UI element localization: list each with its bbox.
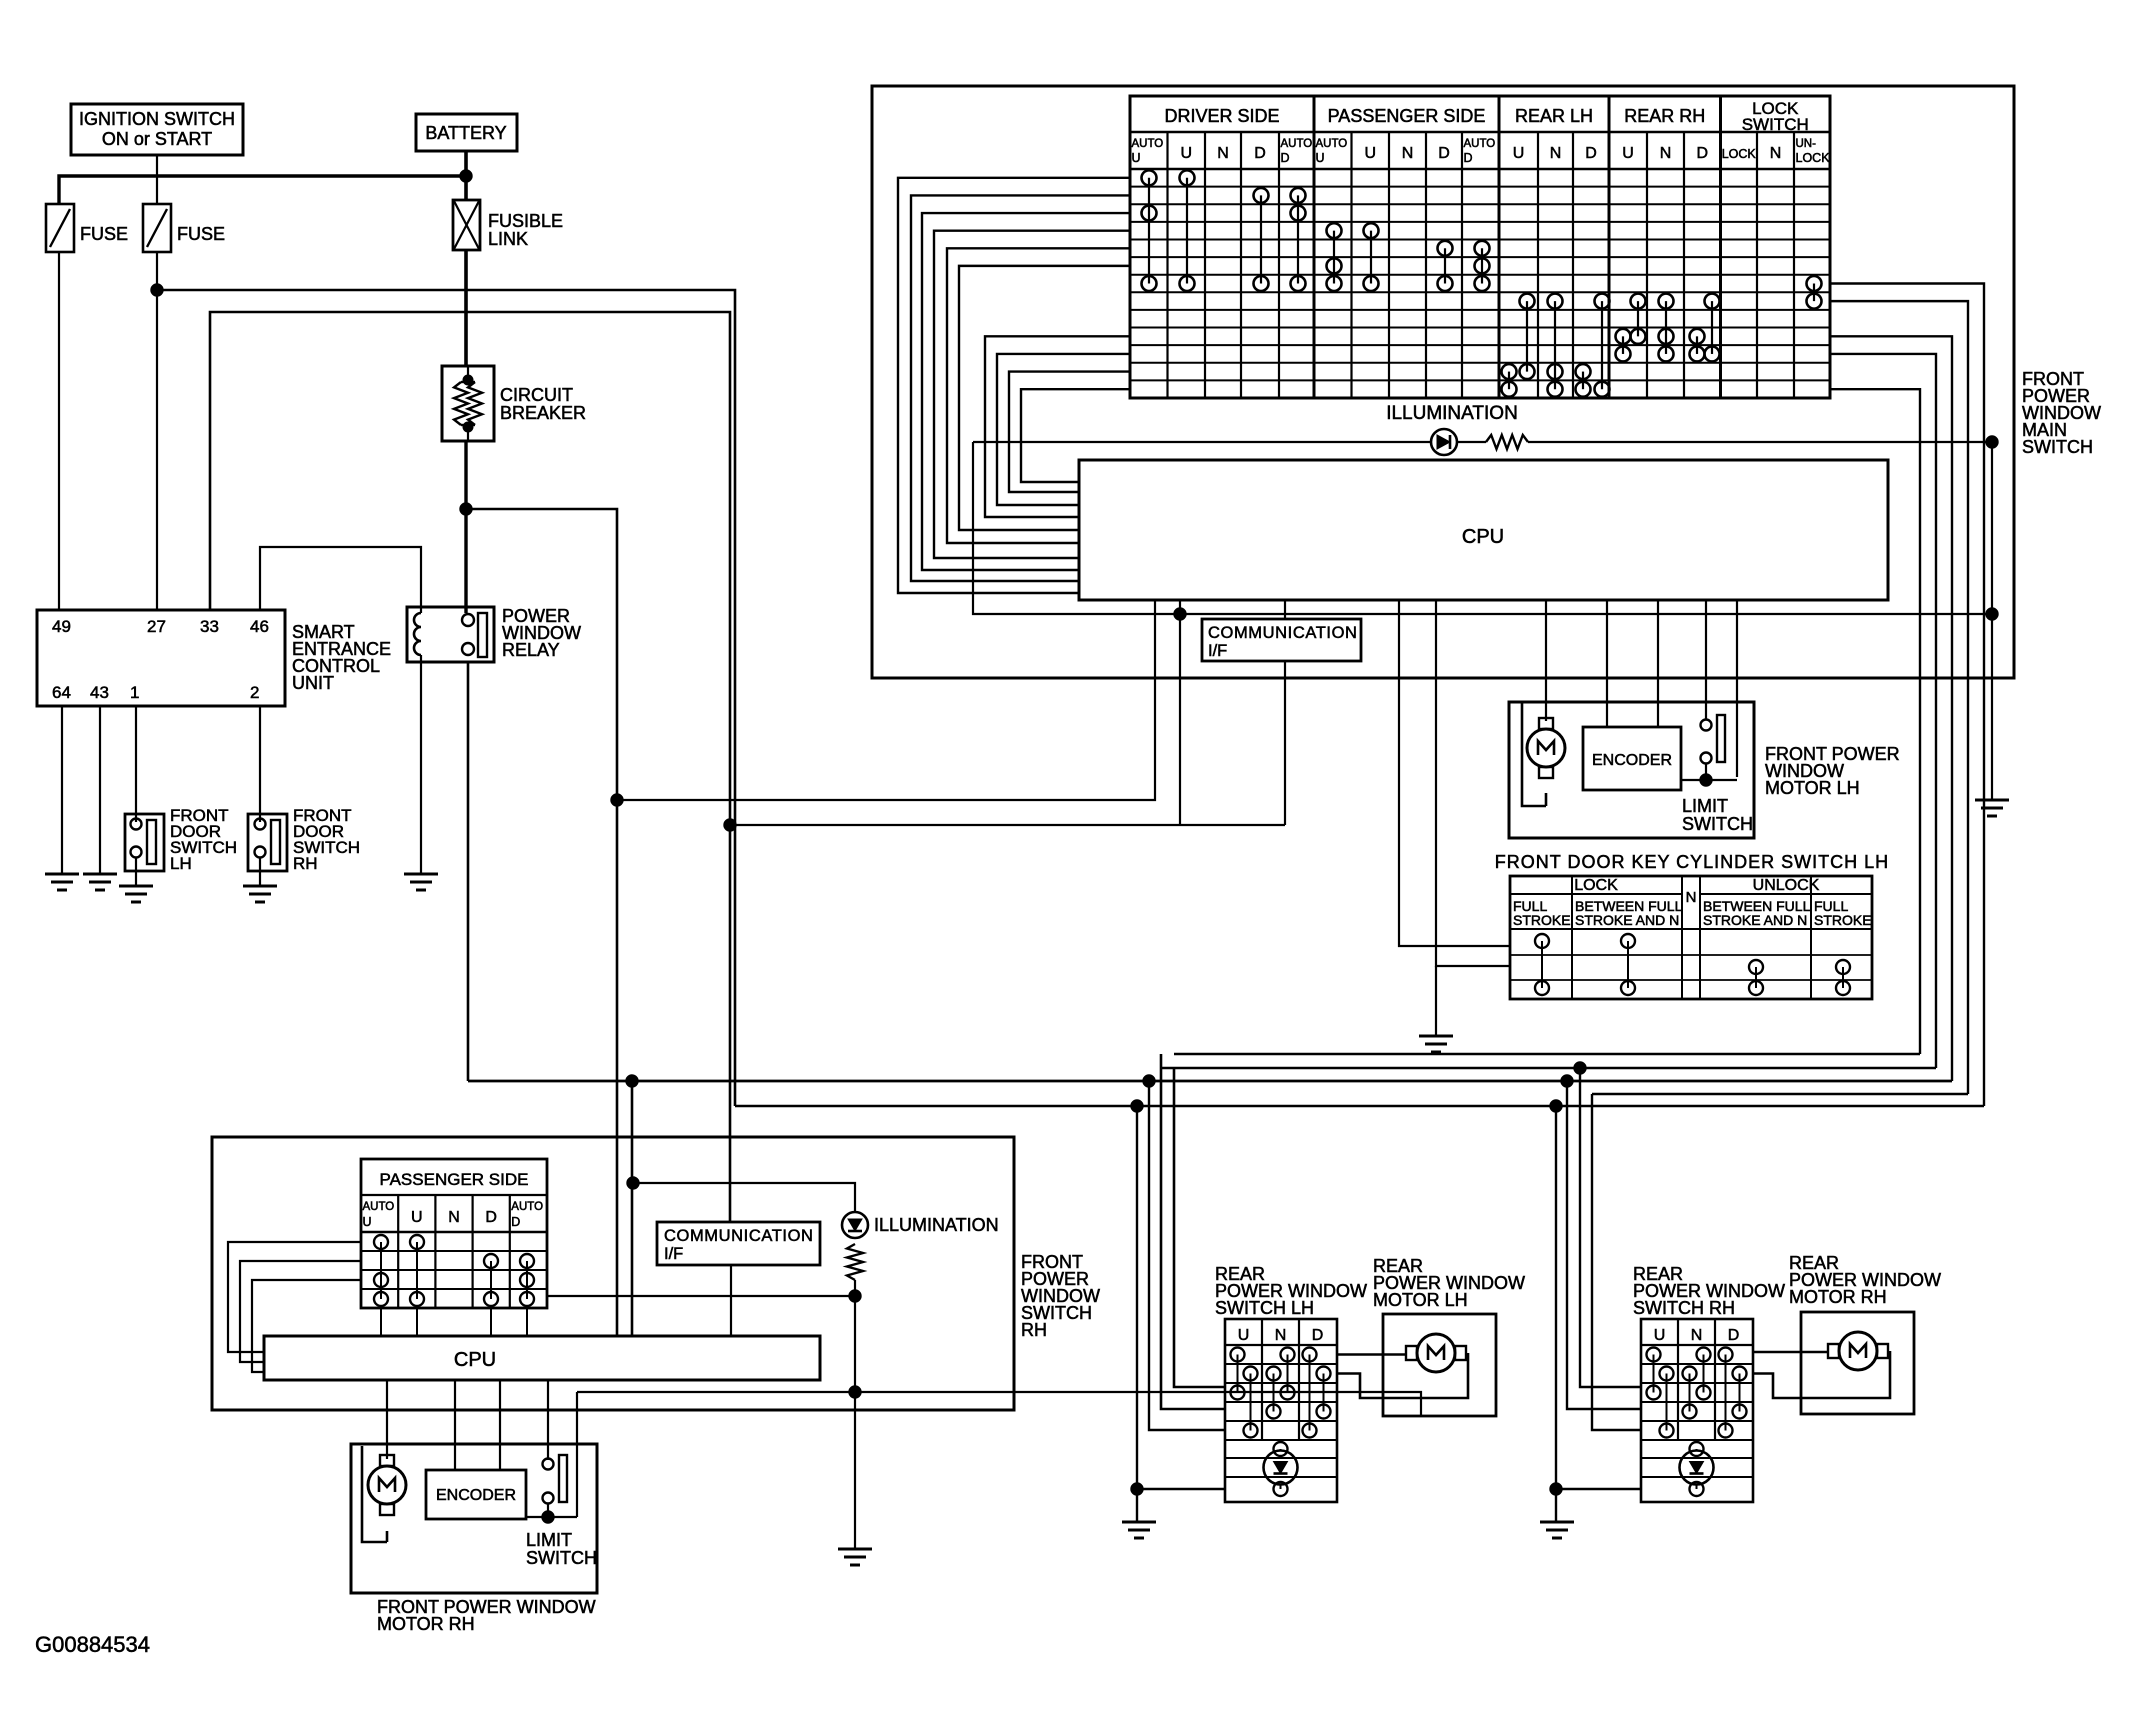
wire illumination feed	[973, 441, 1431, 443]
node CPU pin illumination	[1174, 608, 1186, 620]
node rear LH ground junction	[1131, 1483, 1143, 1495]
node battery feed junction	[460, 170, 472, 182]
wire cpu RH to limit switch	[547, 1380, 549, 1460]
front door switch LH	[125, 814, 164, 871]
node illumination RH to table	[849, 1290, 861, 1302]
svg-text:PASSENGER SIDE: PASSENGER SIDE	[380, 1170, 529, 1189]
illumination LED RH	[842, 1212, 868, 1238]
node B5 rear LH ground feed	[1131, 1100, 1143, 1112]
wire B3 to rear switch RH row2	[1567, 1081, 1641, 1409]
ground rear switch LH	[1122, 1521, 1156, 1524]
svg-text:RH: RH	[293, 854, 318, 873]
ground door switch RH	[243, 885, 277, 888]
main switch contact circles lock switch	[1813, 284, 1815, 302]
svg-text:N: N	[1217, 145, 1229, 162]
wire chain1 breaker branch to RH switch CPU	[466, 509, 617, 1336]
main switch contact circles driver side	[1148, 178, 1150, 284]
rear motor LH	[1417, 1334, 1455, 1372]
svg-text:N: N	[1686, 889, 1697, 906]
svg-text:D: D	[1312, 1327, 1324, 1344]
svg-text:REAR RH: REAR RH	[1624, 106, 1705, 126]
wire cpu to key cylinder row2	[1436, 600, 1510, 966]
wire ignition switch to fuse 2	[156, 155, 158, 204]
svg-text:PASSENGER SIDE: PASSENGER SIDE	[1328, 106, 1486, 126]
main switch left entry wires	[898, 178, 1130, 593]
smart entrance control unit box	[37, 610, 285, 706]
wire cpu to limit switch LH	[1705, 600, 1707, 719]
svg-text:2: 2	[250, 683, 259, 702]
svg-text:U: U	[411, 1209, 423, 1226]
svg-text:N: N	[1275, 1327, 1287, 1344]
svg-text:AUTO: AUTO	[1464, 138, 1496, 150]
front power window motor LH box	[1509, 702, 1754, 838]
bus B3 relay power	[468, 1080, 1952, 1083]
svg-text:ON or START: ON or START	[102, 129, 212, 149]
ground SECU pin43	[83, 873, 117, 876]
svg-text:SWITCH: SWITCH	[526, 1548, 597, 1568]
svg-text:SWITCH LH: SWITCH LH	[1215, 1298, 1314, 1318]
wire cpu to limit switch LH return	[1736, 600, 1738, 777]
svg-text:G00884534: G00884534	[35, 1632, 150, 1657]
rear power window motor LH box	[1383, 1314, 1496, 1416]
svg-text:SWITCH: SWITCH	[1682, 814, 1753, 834]
limit switch LH contacts	[1701, 720, 1712, 731]
node illumination return junction	[1986, 608, 1998, 620]
svg-text:STROKE AND N: STROKE AND N	[1703, 912, 1807, 928]
ground rear switch RH	[1540, 1521, 1574, 1524]
node B3 RH front switch feed	[626, 1075, 638, 1087]
svg-text:ENCODER: ENCODER	[436, 1487, 516, 1504]
wire SECU pin1 to door switch LH	[135, 706, 137, 822]
svg-text:ILLUMINATION: ILLUMINATION	[874, 1215, 999, 1235]
wire cpu to encoder LH left	[1606, 600, 1608, 727]
svg-text:43: 43	[90, 683, 109, 702]
svg-text:STROKE: STROKE	[1513, 912, 1571, 928]
svg-text:LIMIT: LIMIT	[526, 1530, 572, 1550]
encoder RH box	[426, 1470, 526, 1519]
wire cpu RH to motor RH front	[386, 1380, 388, 1459]
ignition switch box	[71, 104, 243, 155]
svg-text:MOTOR LH: MOTOR LH	[1765, 778, 1860, 798]
cpu RH switch box	[264, 1336, 820, 1380]
wire fuse1 to SECU pin 49	[58, 252, 60, 610]
passenger table to cpu wires	[380, 1308, 382, 1336]
svg-text:COMMUNICATION: COMMUNICATION	[664, 1227, 814, 1245]
svg-text:D: D	[1585, 145, 1597, 162]
bus B4	[1592, 1093, 1968, 1096]
limit switch RH contacts	[543, 1459, 554, 1470]
wire B2 to rear switch LH row1	[1174, 1068, 1225, 1387]
svg-text:D: D	[485, 1209, 497, 1226]
wire B3 to RH front switch	[631, 1081, 634, 1336]
svg-text:1: 1	[130, 683, 139, 702]
rear power window switch RH table	[1641, 1319, 1753, 1502]
svg-text:AUTO: AUTO	[1316, 138, 1348, 150]
wire limit switch LH to encoder	[1705, 763, 1707, 780]
main switch table grid	[1130, 96, 1830, 398]
motor LH lead bracket	[1522, 703, 1546, 806]
svg-text:64: 64	[52, 683, 71, 702]
wire long return to rear area	[855, 1392, 1421, 1416]
svg-text:FUSIBLE: FUSIBLE	[488, 211, 563, 231]
power window relay	[407, 607, 494, 662]
ground door switch LH	[119, 885, 153, 888]
svg-text:SWITCH: SWITCH	[2022, 437, 2093, 457]
bus B2	[1161, 1067, 1936, 1070]
resistor illumination RH	[847, 1244, 863, 1280]
svg-text:AUTO: AUTO	[511, 1201, 543, 1213]
svg-text:ILLUMINATION: ILLUMINATION	[1386, 403, 1518, 424]
passenger side table RH switch	[361, 1159, 547, 1308]
main switch contact circles passenger side	[1333, 231, 1335, 284]
wire W2 SECU pin33 to RH comm	[210, 312, 730, 1222]
svg-text:LIMIT: LIMIT	[1682, 796, 1728, 816]
svg-text:U: U	[363, 1215, 372, 1229]
wire limit return RH horizontal	[577, 1391, 855, 1393]
svg-text:49: 49	[52, 617, 71, 636]
node limit switch RH	[542, 1511, 554, 1523]
illumination LED main switch	[1431, 429, 1457, 455]
svg-text:U: U	[1654, 1327, 1666, 1344]
svg-text:BATTERY: BATTERY	[425, 123, 506, 143]
svg-text:U: U	[1238, 1327, 1250, 1344]
wire rear switch LH to motor LH	[1337, 1353, 1406, 1356]
battery box	[416, 114, 517, 151]
fuse F1	[46, 204, 74, 252]
resistor main illumination	[1486, 435, 1528, 449]
svg-text:IGNITION SWITCH: IGNITION SWITCH	[79, 109, 235, 129]
svg-text:AUTO: AUTO	[1281, 138, 1313, 150]
fuse F2	[143, 204, 171, 252]
wire cpu RH to encoder right	[499, 1380, 501, 1470]
main switch contact circles rear LH	[1526, 301, 1528, 371]
wire cpu to comm IF	[1284, 600, 1286, 619]
svg-text:LH: LH	[170, 854, 192, 873]
node breaker branch	[460, 503, 472, 515]
main switch contact circles rear RH	[1637, 301, 1639, 336]
svg-text:N: N	[1660, 145, 1672, 162]
bus B5 ground bus	[735, 1105, 1984, 1108]
ground key cylinder	[1419, 1035, 1453, 1038]
svg-text:FUSE: FUSE	[177, 224, 225, 244]
key cylinder contact circles	[1541, 941, 1543, 988]
wire chain2 to main CPU and comm IF	[730, 824, 1285, 826]
svg-text:U: U	[1316, 151, 1325, 165]
node B3 rear RH feed	[1561, 1075, 1573, 1087]
wire B5 to rear switch LH bottom	[1137, 1106, 1225, 1489]
wire rear switch LH to motor LH return	[1337, 1353, 1468, 1398]
circuit breaker	[442, 366, 494, 441]
wire fuse2 to SECU pin 27	[156, 252, 158, 610]
wire B2 to rear switch RH row1	[1580, 1068, 1641, 1387]
motor RH front	[368, 1466, 406, 1504]
main switch right exit wires to rear buses	[1830, 284, 1984, 1107]
wire SECU pin2 to door switch RH	[259, 706, 261, 822]
wire limit switch RH return riser	[576, 1392, 578, 1517]
svg-text:MOTOR RH: MOTOR RH	[377, 1614, 475, 1634]
wire W1 fuse2 to rear bus B5	[157, 290, 735, 1106]
node illumination right	[1986, 436, 1998, 448]
node fuse2 branch	[151, 284, 163, 296]
node rear RH ground junction	[1550, 1483, 1562, 1495]
wire relay coil to ground	[420, 655, 422, 874]
passenger table left wrap wires	[228, 1242, 361, 1352]
svg-text:ENCODER: ENCODER	[1592, 752, 1672, 769]
wire B3 to rear switch LH row3	[1149, 1081, 1225, 1430]
svg-text:I/F: I/F	[1208, 642, 1227, 660]
svg-text:27: 27	[147, 617, 166, 636]
wire cpu to key cylinder row1	[1399, 600, 1510, 946]
fusible link	[453, 200, 480, 250]
rear motor RH	[1839, 1332, 1877, 1370]
node B3 rear LH feed	[1143, 1075, 1155, 1087]
front power window main switch box	[872, 86, 2014, 678]
svg-text:STROKE AND N: STROKE AND N	[1575, 912, 1679, 928]
wire comm IF RH to cpu	[730, 1265, 732, 1336]
wire B4 to rear switch RH row3	[1592, 1094, 1641, 1430]
svg-text:U: U	[1513, 145, 1525, 162]
svg-text:AUTO: AUTO	[363, 1201, 395, 1213]
svg-text:MOTOR LH: MOTOR LH	[1373, 1290, 1468, 1310]
wire limit switch RH to encoder	[547, 1503, 549, 1517]
wire circuit breaker to relay	[464, 441, 467, 613]
svg-text:BREAKER: BREAKER	[500, 403, 586, 423]
wire resistor to right margin	[1528, 441, 1992, 443]
svg-text:I/F: I/F	[664, 1245, 683, 1263]
svg-text:D: D	[1281, 151, 1290, 165]
svg-text:U: U	[1622, 145, 1634, 162]
node illumination RH feed	[627, 1177, 639, 1189]
wire rear LH to ground	[1136, 1489, 1138, 1522]
ground SECU pin64	[45, 873, 79, 876]
svg-text:UNLOCK: UNLOCK	[1753, 877, 1820, 894]
wire resistor RH down	[854, 1280, 856, 1296]
svg-text:N: N	[1691, 1327, 1703, 1344]
wire cpu to encoder LH right	[1657, 600, 1659, 727]
svg-text:SWITCH RH: SWITCH RH	[1633, 1298, 1735, 1318]
rear power window switch LH table	[1225, 1319, 1337, 1502]
front door key cylinder switch table	[1510, 876, 1872, 999]
communication IF box main	[1202, 619, 1361, 661]
svg-text:LOCK: LOCK	[1574, 877, 1618, 894]
svg-text:CPU: CPU	[1462, 526, 1504, 548]
svg-text:CPU: CPU	[454, 1349, 496, 1371]
rear power window motor RH box	[1801, 1312, 1914, 1414]
wire relay output to bus B3	[467, 662, 470, 1081]
encoder LH box	[1583, 727, 1681, 790]
wire SECU pin43 to ground	[99, 706, 101, 874]
svg-text:N: N	[1550, 145, 1562, 162]
node B5 rear RH ground feed	[1550, 1100, 1562, 1112]
wire illumination return to CPU pin	[973, 442, 1992, 614]
wire fusible link to circuit breaker	[464, 250, 468, 366]
svg-text:U: U	[1180, 145, 1192, 162]
wire illumination RH feed	[633, 1183, 855, 1212]
svg-text:STROKE: STROKE	[1814, 912, 1872, 928]
wire table bottom row to illumination return	[547, 1295, 855, 1297]
wire door switch RH to ground	[259, 857, 261, 886]
svg-text:N: N	[1770, 145, 1782, 162]
node B2 rear RH feed	[1574, 1062, 1586, 1074]
wire rear RH to ground	[1555, 1489, 1557, 1522]
wire SECU pin46 to relay coil	[260, 547, 421, 610]
passenger side table circles	[380, 1242, 382, 1299]
wire rear switch RH to motor RH return	[1753, 1351, 1890, 1398]
svg-text:AUTO: AUTO	[1132, 138, 1164, 150]
ground illumination return	[1975, 799, 2009, 802]
svg-text:RELAY: RELAY	[502, 640, 560, 660]
wire LED to resistor	[1457, 441, 1486, 443]
svg-text:COMMUNICATION: COMMUNICATION	[1208, 624, 1358, 642]
svg-text:SWITCH: SWITCH	[1742, 115, 1809, 134]
motor RH lead bracket	[362, 1446, 387, 1542]
svg-text:RH: RH	[1021, 1320, 1047, 1340]
svg-text:33: 33	[200, 617, 219, 636]
svg-text:D: D	[511, 1215, 520, 1229]
svg-text:UN-: UN-	[1796, 138, 1817, 150]
communication IF box RH switch	[657, 1222, 820, 1265]
wire B1 to rear switch LH row2	[1161, 1054, 1225, 1409]
svg-text:FRONT DOOR KEY CYLINDER SWITCH: FRONT DOOR KEY CYLINDER SWITCH LH	[1495, 852, 1889, 872]
svg-text:CIRCUIT: CIRCUIT	[500, 385, 573, 405]
node limit return RH	[849, 1386, 861, 1398]
wire battery to fusible link	[464, 151, 468, 200]
ground RH switch illumination return	[838, 1548, 872, 1551]
svg-text:D: D	[1728, 1327, 1740, 1344]
wire illumination return down	[854, 1296, 856, 1549]
svg-text:D: D	[1464, 151, 1473, 165]
front power window motor RH box	[351, 1444, 597, 1593]
svg-text:N: N	[1402, 145, 1414, 162]
wire B5 to rear switch RH bottom	[1556, 1106, 1641, 1489]
wire chain1 to main CPU	[617, 600, 1155, 800]
node W2 branch	[724, 819, 736, 831]
wire key cylinder to ground	[1435, 966, 1437, 1036]
wire cpu to motor LH motor	[1545, 600, 1547, 721]
wire SECU pin64 to ground	[61, 706, 63, 874]
node limit switch LH	[1700, 774, 1712, 786]
svg-text:LINK: LINK	[488, 229, 528, 249]
svg-text:D: D	[1696, 145, 1708, 162]
svg-text:REAR LH: REAR LH	[1515, 106, 1593, 126]
front power window switch RH box	[212, 1137, 1014, 1410]
front door switch RH	[248, 814, 287, 871]
motor LH	[1527, 729, 1565, 767]
ground relay coil	[404, 873, 438, 876]
wire illumination return vertical	[1991, 442, 1993, 800]
wire cpu RH to encoder left	[454, 1380, 456, 1470]
svg-text:N: N	[448, 1209, 460, 1226]
svg-text:DRIVER SIDE: DRIVER SIDE	[1164, 106, 1279, 126]
svg-text:46: 46	[250, 617, 269, 636]
svg-text:D: D	[1438, 145, 1450, 162]
cpu main switch box	[1079, 460, 1888, 600]
bus B1	[1174, 1053, 1920, 1056]
wire door switch LH to ground	[135, 857, 137, 886]
svg-text:UNIT: UNIT	[292, 673, 334, 693]
svg-text:LOCK: LOCK	[1796, 151, 1831, 165]
svg-text:MOTOR RH: MOTOR RH	[1789, 1287, 1887, 1307]
wire rear switch RH to motor RH	[1753, 1351, 1828, 1354]
svg-text:U: U	[1132, 151, 1141, 165]
wire battery bus to fuse 1	[59, 176, 466, 204]
svg-text:U: U	[1364, 145, 1376, 162]
svg-text:LOCK: LOCK	[1722, 147, 1757, 161]
node chain1 branch	[611, 794, 623, 806]
svg-text:FUSE: FUSE	[80, 224, 128, 244]
svg-text:D: D	[1254, 145, 1266, 162]
